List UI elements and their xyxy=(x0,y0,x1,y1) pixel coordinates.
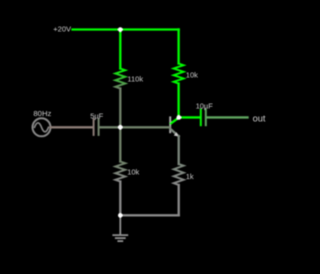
svg-text:+20V: +20V xyxy=(53,25,71,34)
resistor 1k xyxy=(174,164,184,185)
wire capacitor to out xyxy=(207,116,248,118)
svg-text:out: out xyxy=(253,114,266,124)
resistor 10k lower xyxy=(115,162,125,182)
svg-text:10k: 10k xyxy=(127,168,139,177)
wire base xyxy=(121,126,169,128)
svg-text:10µF: 10µF xyxy=(196,102,214,111)
svg-text:80Hz: 80Hz xyxy=(33,109,51,118)
wire bottom rail xyxy=(120,214,178,216)
resistor 10k upper xyxy=(174,64,184,84)
wire source to capacitor xyxy=(51,126,94,128)
wire from rail down to 110k xyxy=(119,30,121,69)
capacitor 10uF plate right xyxy=(205,110,207,126)
wire 10k to collector node xyxy=(177,84,179,118)
wire top rail xyxy=(73,28,179,30)
resistor 110k xyxy=(115,69,125,89)
capacitor 5uF plate right xyxy=(98,119,100,135)
node B junction base xyxy=(118,125,123,130)
svg-text:110k: 110k xyxy=(127,74,143,83)
wire 10k to ground node xyxy=(119,182,121,216)
AC source 80Hz circle xyxy=(33,118,51,136)
wire collector node to capacitor xyxy=(179,116,200,118)
transistor collector lead xyxy=(171,118,179,124)
wire capacitor to base node xyxy=(100,126,121,128)
capacitor 10uF plate left xyxy=(200,110,202,126)
transistor base bar xyxy=(169,117,171,132)
wire base node down to 10k xyxy=(119,127,121,161)
node C junction ground xyxy=(118,213,123,218)
wire 110k to base node xyxy=(119,89,121,128)
wire emitter down to 1k xyxy=(178,136,180,164)
node A junction top rail xyxy=(118,27,123,32)
capacitor 5uF plate left xyxy=(93,119,95,135)
transistor emitter lead xyxy=(171,129,179,136)
transistor emitter arrow xyxy=(174,132,179,136)
node D junction collector xyxy=(177,115,182,120)
wire 1k down xyxy=(178,185,180,215)
svg-text:1k: 1k xyxy=(186,172,194,181)
svg-text:5µF: 5µF xyxy=(90,112,103,121)
AC source sine xyxy=(35,123,49,132)
svg-text:10k: 10k xyxy=(186,71,198,80)
ground xyxy=(113,215,127,241)
wire rail down to 10k upper xyxy=(177,30,179,64)
